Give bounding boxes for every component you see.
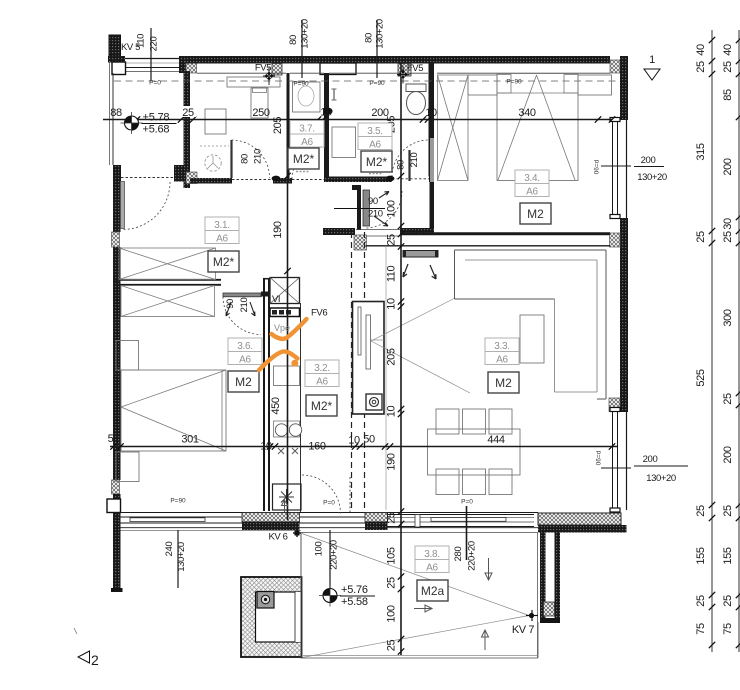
- right outer 200: [722, 158, 734, 175]
- svg-text:FV5: FV5: [255, 63, 271, 74]
- dim rot x401 105: [386, 547, 398, 564]
- dim rot x401 25: [386, 640, 398, 652]
- svg-text:3.1.: 3.1.: [214, 220, 229, 231]
- svg-text:100: 100: [386, 200, 398, 217]
- room 3.6 M2: [228, 371, 259, 392]
- room 3.6 label: [228, 338, 262, 366]
- svg-text:25: 25: [695, 505, 707, 517]
- east wall upper: [620, 56, 628, 120]
- svg-text:3.6.: 3.6.: [237, 341, 252, 352]
- door text 90/210 room36: [225, 298, 250, 313]
- right inner 25: [695, 505, 707, 517]
- svg-text:220+20: 220+20: [329, 540, 340, 570]
- svg-text:+5.78: +5.78: [143, 112, 170, 124]
- svg-text:88: 88: [110, 107, 122, 119]
- svg-text:25: 25: [386, 640, 398, 652]
- svg-text:KV 5: KV 5: [121, 42, 140, 53]
- hall door leader: [334, 208, 385, 210]
- terrace arrow down: [485, 558, 492, 580]
- kitchen counter cabinet A: [274, 366, 300, 386]
- bed3.4 mirror bar: [430, 138, 434, 182]
- TV speaker box: [366, 394, 382, 410]
- svg-text:3.8.: 3.8.: [424, 549, 439, 560]
- P90 terrace west: [170, 498, 186, 505]
- wall bath3.5/bed3.4: [429, 64, 435, 177]
- svg-text:06=d: 06=d: [594, 159, 601, 174]
- svg-text:240: 240: [164, 542, 175, 557]
- svg-text:M2: M2: [495, 376, 512, 390]
- threshold point B: [386, 176, 395, 182]
- P0 loggia: [149, 80, 161, 87]
- kitchen terrace door swing: [302, 475, 350, 514]
- room 3.8 M2a: [417, 580, 448, 601]
- svg-text:130+20: 130+20: [375, 19, 386, 49]
- svg-text:3.5.: 3.5.: [367, 126, 382, 137]
- svg-text:3.7.: 3.7.: [299, 124, 314, 135]
- dim rot x401 110: [386, 266, 398, 283]
- utility door threshold: [232, 179, 273, 181]
- bath3.5 door threshold: [392, 178, 429, 180]
- west wall stub to terrace: [111, 513, 123, 593]
- svg-text:10: 10: [386, 298, 398, 310]
- door text 80/210 utility: [240, 149, 264, 164]
- room 3.1 M2*: [208, 251, 239, 272]
- P90 bath37: [293, 81, 309, 88]
- dim text 50: [363, 434, 375, 446]
- dim text 444: [487, 434, 504, 446]
- loggia door leaf: [121, 182, 125, 229]
- TV sight line A: [371, 298, 455, 341]
- svg-text:FV5: FV5: [407, 63, 423, 74]
- utility appliance column: [251, 88, 268, 118]
- svg-text:M2*: M2*: [213, 255, 235, 269]
- TV sight line B: [371, 341, 470, 393]
- bath3.7 door threshold: [292, 179, 324, 181]
- svg-text:M2*: M2*: [366, 155, 388, 169]
- svg-text:A6: A6: [369, 140, 381, 151]
- svg-text:301: 301: [181, 434, 198, 446]
- svg-text:10: 10: [260, 441, 272, 453]
- leader window bedroom east: [594, 155, 667, 183]
- dimension chain horizontal y120: [103, 116, 615, 122]
- svg-text:200: 200: [641, 155, 656, 166]
- svg-text:30: 30: [722, 218, 734, 230]
- svg-text:A6: A6: [239, 355, 251, 366]
- east wall middle: [620, 218, 628, 412]
- KV7 text: [512, 624, 535, 636]
- dim text 250: [252, 107, 269, 119]
- right inner 155: [695, 547, 707, 564]
- wall 3.6 door jamb piece: [261, 292, 270, 297]
- bed3.4 wardrobe X: [438, 75, 469, 181]
- right outer 40: [722, 44, 734, 56]
- south glazing kitchen door P=0: [300, 517, 366, 523]
- TV wall unit: [353, 302, 385, 415]
- right outer 25: [722, 595, 734, 607]
- KV5 label: [121, 42, 140, 53]
- room3.6 nightstand B: [116, 452, 139, 482]
- dim text 160: [308, 441, 325, 453]
- west wall niche checker: [112, 232, 120, 247]
- arrow mark B: [430, 265, 436, 279]
- svg-text:220: 220: [149, 37, 160, 52]
- svg-text:3.4.: 3.4.: [524, 173, 539, 184]
- svg-text:25: 25: [386, 234, 398, 246]
- dining chairs: [436, 409, 512, 495]
- dim text 340: [518, 107, 535, 119]
- svg-text:25: 25: [722, 505, 734, 517]
- svg-text:190: 190: [386, 453, 398, 470]
- right outer 25: [722, 61, 734, 73]
- arrow mark A: [403, 264, 408, 277]
- svg-text:06=d: 06=d: [596, 450, 603, 465]
- right inner 315: [695, 143, 707, 160]
- bath3.5 radiator: [332, 89, 337, 100]
- dining table: [428, 429, 521, 475]
- south glazing living slider P=0: [388, 515, 535, 528]
- south band top line: [113, 512, 538, 514]
- svg-text:25: 25: [722, 231, 734, 243]
- dimension chain vertical x401: [398, 63, 404, 655]
- svg-text:+5.68: +5.68: [143, 124, 170, 136]
- svg-text:P=90: P=90: [369, 80, 385, 87]
- svg-text:160: 160: [308, 441, 325, 453]
- svg-text:10: 10: [348, 435, 360, 447]
- svg-text:VI: VI: [272, 294, 280, 305]
- chain KV5 top: [136, 28, 160, 80]
- svg-text:80: 80: [364, 33, 375, 43]
- svg-text:130+20: 130+20: [176, 542, 187, 572]
- svg-text:210: 210: [239, 298, 250, 313]
- room 3.3 label: [485, 338, 519, 366]
- svg-text:85: 85: [722, 89, 734, 101]
- svg-text:75: 75: [695, 623, 707, 635]
- svg-text:M2*: M2*: [293, 152, 315, 166]
- svg-text:1: 1: [649, 54, 655, 66]
- svg-text:130+20: 130+20: [300, 19, 311, 49]
- west wall niche B: [112, 480, 120, 494]
- right outer 25: [722, 505, 734, 517]
- dimension chain vertical x287: [284, 73, 290, 520]
- threshold point A: [272, 176, 281, 182]
- P0 living slider: [461, 499, 473, 506]
- svg-text:P=0: P=0: [461, 499, 473, 506]
- dim text 10c: [260, 441, 272, 453]
- right outer 155: [722, 547, 734, 564]
- dim rot 190a: [272, 221, 284, 238]
- sofa L: [455, 250, 607, 399]
- level marker B: [319, 584, 375, 608]
- svg-text:10: 10: [425, 107, 437, 119]
- dim text 200: [371, 107, 388, 119]
- bed3.4 double bed: [497, 74, 578, 181]
- svg-text:A6: A6: [526, 187, 538, 198]
- washing machine: [205, 155, 221, 171]
- svg-text:110: 110: [386, 266, 398, 283]
- dim rot x401 25: [386, 512, 398, 524]
- svg-text:+5.58: +5.58: [341, 596, 368, 608]
- bath3.5 toilet: [406, 84, 426, 115]
- chimney block KV5: [109, 35, 121, 56]
- right outer 75: [722, 623, 734, 635]
- svg-text:220+20: 220+20: [467, 541, 478, 571]
- svg-text:155: 155: [695, 547, 707, 564]
- svg-text:25: 25: [182, 107, 194, 119]
- svg-text:A6: A6: [426, 563, 438, 574]
- bed3.4 dresser: [578, 75, 612, 95]
- orange logo swoosh lower: [259, 351, 298, 370]
- svg-text:A6: A6: [316, 377, 328, 388]
- dim rot x401 190: [386, 453, 398, 470]
- door arrows room36: [226, 302, 255, 316]
- dim rot x401 25: [386, 234, 398, 246]
- east window living: [610, 408, 627, 513]
- svg-text:A6: A6: [301, 137, 313, 148]
- svg-text:210: 210: [409, 153, 420, 168]
- KV6 text: [269, 532, 288, 543]
- room 3.2 M2*: [306, 395, 337, 416]
- leader window living east: [596, 450, 689, 484]
- bath3.7 door swing: [292, 147, 324, 179]
- svg-text:25: 25: [722, 595, 734, 607]
- terrace sight line A: [302, 534, 529, 616]
- lower terrace outline: [301, 533, 538, 659]
- level marker A: [121, 112, 177, 136]
- room3.1 wardrobe X: [119, 248, 216, 280]
- loggia top-left corner wall: [108, 56, 125, 63]
- svg-text:450: 450: [270, 397, 282, 414]
- FV valve B: [397, 66, 409, 84]
- loggia door swing: [123, 182, 171, 230]
- svg-text:155: 155: [722, 547, 734, 564]
- svg-text:Vpe: Vpe: [274, 323, 290, 333]
- chain terrace door left: [164, 530, 187, 588]
- svg-text:A6: A6: [496, 355, 508, 366]
- right outer 25: [722, 231, 734, 243]
- checker pillar top A: [186, 60, 197, 73]
- P90 bed34: [506, 79, 522, 86]
- bath3.5 door swing: [392, 140, 429, 177]
- P0 kitchen door: [323, 500, 335, 507]
- dim text 88: [110, 107, 122, 119]
- dim rot x401 10: [386, 298, 398, 310]
- checker pillar east B: [609, 398, 620, 412]
- svg-text:100: 100: [314, 542, 325, 557]
- west exterior wall upper: [113, 165, 121, 232]
- FV5 pillar B: [398, 64, 411, 77]
- svg-text:25: 25: [695, 61, 707, 73]
- checker pillar hall/living: [354, 235, 367, 250]
- svg-text:M2*: M2*: [311, 399, 333, 413]
- loggia north glazing: [113, 59, 186, 72]
- svg-text:200: 200: [722, 158, 734, 175]
- FV valve A: [263, 67, 275, 85]
- P90 bath35: [369, 80, 385, 87]
- svg-text:3.3.: 3.3.: [494, 341, 509, 352]
- room 3.7 label: [290, 121, 324, 149]
- right outer 25: [722, 393, 734, 405]
- west pillar low: [107, 499, 121, 513]
- checker pillar east A: [610, 233, 621, 247]
- hall south wall: [323, 228, 434, 236]
- wall utility/bath3.7: [287, 73, 290, 178]
- dim rot 450: [270, 397, 282, 414]
- FV6 box: [270, 308, 300, 317]
- exterior wall north band: [186, 56, 610, 64]
- svg-text:KV 7: KV 7: [512, 624, 535, 636]
- svg-text:340: 340: [518, 107, 535, 119]
- orange logo swoosh upper: [272, 319, 307, 339]
- utility cabinet: [205, 109, 226, 134]
- svg-text:525: 525: [695, 369, 707, 386]
- room3.6 nightstand A: [116, 341, 139, 371]
- dim point oval 10: [320, 107, 332, 119]
- svg-text:80: 80: [288, 35, 299, 45]
- terrace edge below KV6: [301, 533, 538, 659]
- right outer 30: [722, 218, 734, 230]
- svg-text:205: 205: [272, 117, 284, 134]
- room3.6 door swing: [223, 297, 261, 335]
- right outer 200: [722, 446, 734, 463]
- svg-text:P=90: P=90: [293, 81, 309, 88]
- west exterior wall mid: [113, 247, 121, 480]
- south-east corner wall block: [538, 513, 627, 533]
- kitchen sink circles: [275, 424, 301, 436]
- room3.6 bed: [121, 370, 226, 451]
- svg-text:KV 6: KV 6: [269, 532, 288, 543]
- dim text 10b: [425, 107, 437, 119]
- svg-text:25: 25: [695, 231, 707, 243]
- room 3.3 M2: [488, 372, 519, 393]
- wall bath3.7/bath3.5: [324, 73, 329, 177]
- svg-text:190: 190: [272, 221, 284, 238]
- south wall block A: [242, 513, 300, 531]
- right inner 25: [695, 61, 707, 73]
- svg-text:210: 210: [253, 149, 264, 164]
- svg-text:100: 100: [386, 605, 398, 622]
- hall west wall jog: [352, 185, 361, 230]
- svg-text:25: 25: [386, 512, 398, 524]
- chain window top A: [288, 19, 311, 78]
- dim rot x401 10: [386, 406, 398, 418]
- svg-text:+5.76: +5.76: [341, 584, 368, 596]
- svg-text:25: 25: [695, 595, 707, 607]
- svg-text:75: 75: [722, 623, 734, 635]
- svg-text:130+20: 130+20: [637, 172, 667, 183]
- svg-text:P=90: P=90: [170, 498, 186, 505]
- svg-text:3.2.: 3.2.: [314, 363, 329, 374]
- svg-text:280: 280: [453, 547, 464, 562]
- svg-text:210: 210: [368, 209, 383, 220]
- room 3.7 M2*: [288, 148, 319, 169]
- kitchen hob marks: [278, 448, 298, 454]
- door text 90/210 hall: [368, 196, 383, 220]
- bath3.5 shower: [332, 127, 356, 158]
- room 3.5 M2*: [361, 151, 392, 172]
- section marker 1: [644, 54, 660, 80]
- room north face lines: [197, 72, 610, 74]
- section marker 2: [74, 628, 99, 668]
- dim rot x401 205: [386, 348, 398, 365]
- dining west boundary line: [385, 247, 387, 510]
- svg-text:5: 5: [108, 433, 114, 445]
- svg-text:10: 10: [320, 107, 332, 119]
- dim text 301: [181, 434, 198, 446]
- radiator mark 3.7: [296, 171, 310, 173]
- svg-text:50: 50: [363, 434, 375, 446]
- checker pillar NE corner: [610, 60, 620, 73]
- svg-text:25: 25: [722, 393, 734, 405]
- terrace arrow up: [482, 630, 489, 650]
- utility closet shelf: [227, 77, 280, 87]
- svg-text:444: 444: [487, 434, 504, 446]
- wall 3.1/3.6: [113, 280, 221, 285]
- svg-text:25: 25: [722, 61, 734, 73]
- svg-text:M2: M2: [235, 375, 252, 389]
- svg-text:300: 300: [722, 309, 734, 326]
- room 3.4 label: [515, 170, 549, 198]
- right inner 75: [695, 623, 707, 635]
- dim rot x401 100: [386, 200, 398, 217]
- terrace sight line B: [302, 616, 529, 658]
- dimension chain horizontal y447: [110, 443, 618, 449]
- svg-text:80: 80: [396, 160, 407, 170]
- south floor edge lines: [121, 528, 539, 531]
- right inner 25: [695, 595, 707, 607]
- KV6 cross: [293, 529, 301, 537]
- kitchen east edge: [300, 303, 302, 512]
- chain kitchen door bottom: [314, 530, 340, 588]
- right inner 40: [695, 44, 707, 56]
- room 3.8 label: [415, 546, 449, 574]
- radiator mark 3.5: [369, 173, 383, 175]
- arrow up kitchen door: [282, 500, 288, 512]
- dim text 5: [108, 433, 114, 445]
- svg-text:A6: A6: [216, 234, 228, 245]
- right outer 300: [722, 309, 734, 326]
- orange logo dot: [291, 360, 298, 367]
- utility door swing: [232, 140, 270, 178]
- loggia door threshold: [121, 177, 174, 179]
- window lintel FV4: [320, 63, 356, 75]
- loggia corner pillar: [112, 62, 126, 75]
- wall loggia/utility: [184, 71, 198, 188]
- svg-text:FV6: FV6: [311, 308, 327, 319]
- room 3.2 label: [305, 360, 339, 388]
- svg-text:200: 200: [643, 454, 658, 465]
- hall door arrows: [374, 192, 389, 227]
- dashed line P-level y81: [114, 80, 618, 82]
- hall east wall: [430, 182, 435, 230]
- south-east wall L stub: [540, 533, 560, 624]
- vent shaft VI: [270, 278, 300, 304]
- terrace arrow right: [414, 605, 432, 612]
- svg-text:315: 315: [695, 143, 707, 160]
- room 3.1 label: [205, 217, 239, 245]
- room3.6 door leaf: [223, 293, 261, 297]
- dim rot 205a: [272, 117, 284, 134]
- svg-text:200: 200: [722, 446, 734, 463]
- west exterior wall low: [113, 494, 121, 499]
- svg-text:40: 40: [722, 44, 734, 56]
- svg-text:P=0: P=0: [149, 80, 161, 87]
- kitchen cabinet B: [274, 421, 300, 437]
- room 3.4 M2: [520, 203, 551, 224]
- wall band y178 (loggia door jamb): [113, 165, 186, 182]
- svg-text:M2a: M2a: [421, 584, 445, 598]
- svg-text:M2: M2: [527, 207, 544, 221]
- VI text: [272, 294, 280, 305]
